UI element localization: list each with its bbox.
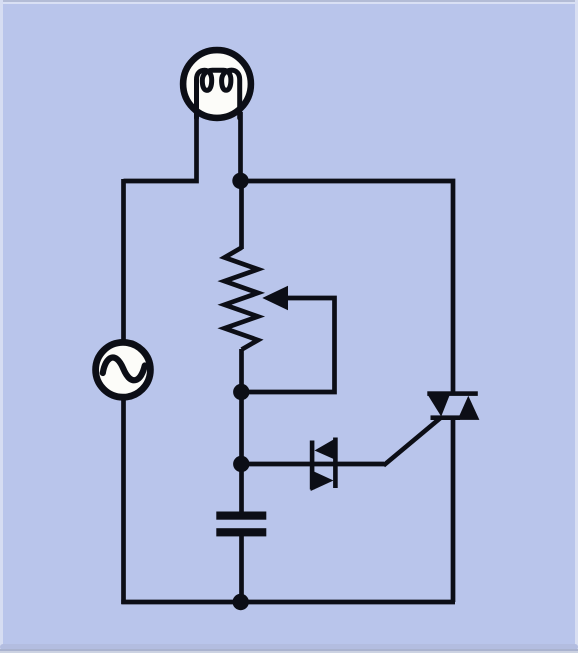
AC source sine (103, 358, 145, 381)
AC source V1 body (96, 342, 151, 397)
junction node B at diac branch (233, 456, 249, 472)
wire: top rail right and right rail upper (241, 181, 454, 394)
triac Q1 bottom bar (431, 415, 461, 420)
wire: top node to resistor (239, 181, 244, 249)
wire: wiper loop to lower node (242, 298, 335, 392)
triac Q1 left triangle (428, 395, 450, 416)
wire: lamp right lead down to top node (238, 112, 243, 181)
wire: lamp left lead down and jog left to left rail (124, 112, 197, 181)
lamp L1 body (183, 50, 251, 118)
junction node A below resistor (233, 384, 249, 400)
wire: right rail lower (451, 418, 456, 603)
wire: left rail vertical (121, 179, 126, 604)
junction node top (232, 173, 248, 189)
wire: node B down to capacitor (239, 464, 244, 512)
wire: node A to node B (239, 392, 244, 464)
lamp L1 filament (197, 70, 240, 118)
triac Q1 right triangle (458, 396, 480, 420)
diac D1 lower triangle (311, 470, 334, 491)
diac D1 left bar (310, 441, 315, 490)
potentiometer wiper arrow (264, 287, 288, 310)
wire: resistor bottom to node A (239, 349, 244, 392)
wire: node B to diac and diac to gate bend (242, 462, 385, 467)
capacitor C1 bottom plate (216, 528, 266, 536)
triac Q1 top bar (427, 391, 478, 396)
potentiometer R1 zigzag (225, 248, 259, 350)
wire: capacitor to bottom node (239, 536, 244, 602)
diac D1 upper triangle (315, 438, 338, 461)
junction node bottom (233, 594, 249, 610)
wire: bottom rail (121, 600, 455, 605)
diac D1 right bar (333, 438, 338, 489)
capacitor C1 top plate (216, 512, 266, 520)
wire: gate diagonal to triac (384, 418, 442, 466)
